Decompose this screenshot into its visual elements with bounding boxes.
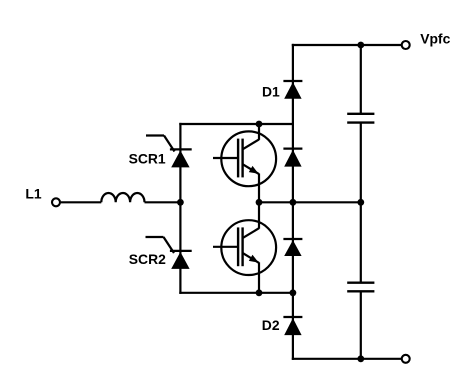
- diode lower middle (unlabeled freewheel diode): [283, 239, 302, 256]
- node diode branch midpoint: [290, 199, 297, 206]
- node bottom-rail / capacitor junction: [357, 355, 364, 362]
- terminal L1 (open circle): [52, 198, 60, 206]
- node capacitor branch midpoint: [357, 199, 364, 206]
- capacitor C1 (upper bus capacitor): [347, 45, 374, 202]
- transistor Q2 (lower IGBT): [213, 202, 276, 292]
- wire top rail to Vpfc terminal: [293, 44, 401, 46]
- diode D2: [283, 317, 302, 335]
- diode upper middle (unlabeled freewheel diode): [283, 149, 302, 167]
- node Q2 emitter on inner bottom rail: [256, 289, 263, 296]
- svg-text:D1: D1: [262, 84, 280, 100]
- svg-text:SCR2: SCR2: [129, 251, 166, 267]
- node collector of Q1 on inner top rail: [256, 121, 263, 128]
- wire left SCR branch vertical: [179, 124, 181, 293]
- svg-text:L1: L1: [25, 186, 41, 202]
- transistor Q1 (upper IGBT): [213, 124, 276, 202]
- terminal Vpfc (open circle): [402, 41, 410, 49]
- svg-text:SCR1: SCR1: [129, 151, 166, 167]
- node L1 wire / SCR branch: [177, 199, 184, 206]
- svg-text:Vpfc: Vpfc: [420, 31, 450, 47]
- wire right diode branch vertical: [292, 45, 294, 359]
- thyristor SCR1: [146, 136, 192, 168]
- inductor L1 coil: [101, 193, 144, 202]
- node diode branch on inner bottom rail: [290, 289, 297, 296]
- wire mid rail (IGBT midpoint to capacitor branch): [259, 201, 361, 203]
- node IGBT midpoint: [256, 199, 263, 206]
- wire bottom rail to output terminal: [293, 358, 401, 360]
- terminal output return (open circle): [402, 355, 410, 363]
- wire inner bottom rail: [180, 292, 293, 294]
- thyristor SCR2: [146, 237, 192, 269]
- wire from L1 terminal to inductor: [61, 201, 102, 203]
- wire inner top rail: [180, 123, 293, 125]
- node top-rail / capacitor junction: [357, 42, 364, 49]
- wire from inductor to SCR branch: [145, 201, 181, 203]
- capacitor C2 (lower bus capacitor): [347, 202, 374, 358]
- svg-text:D2: D2: [262, 317, 280, 333]
- diode D1: [283, 81, 302, 99]
